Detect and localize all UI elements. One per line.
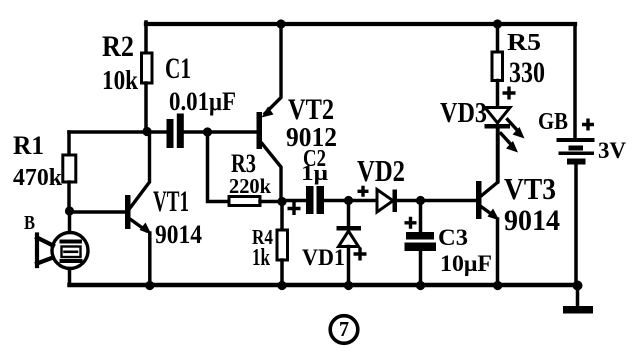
LED VD3: [485, 108, 510, 124]
transistor VT2 base bar: [257, 112, 263, 149]
resistor R4: [277, 230, 288, 260]
wire VD3 to VT3 collector: [496, 129, 500, 183]
svg-text:C3: C3: [438, 225, 468, 250]
svg-text:7: 7: [339, 317, 349, 341]
transistor VT1 base bar: [125, 195, 131, 229]
transistor VT2 collector: [262, 144, 281, 202]
junction VT1 emitter / rail: [145, 281, 154, 290]
plus of C3: [405, 217, 417, 229]
wire VT3 emitter to ground rail: [496, 219, 500, 285]
wire node D to R4: [280, 202, 284, 231]
wire R2 branch from rail: [144, 22, 148, 53]
node C junction: [203, 127, 212, 136]
plus of VD2: [358, 186, 369, 197]
wire R3 to node D: [260, 200, 282, 204]
svg-text:R2: R2: [102, 30, 134, 63]
transistor VT3 collector: [481, 129, 498, 197]
wire node A to C1: [147, 130, 167, 134]
wire R5 branch from rail: [496, 24, 500, 52]
wire R2 to node A: [144, 83, 148, 131]
wire node E to VD2: [349, 199, 378, 203]
svg-text:VD1: VD1: [302, 245, 345, 270]
battery GB: [557, 138, 595, 165]
svg-text:9014: 9014: [504, 204, 560, 237]
svg-text:1k: 1k: [252, 245, 270, 271]
wire VD1 to ground rail: [347, 247, 351, 286]
resistor R2: [142, 53, 153, 83]
node D junction: [277, 197, 286, 206]
plus of VD3: [503, 87, 516, 100]
transistor VT1 emitter: [130, 219, 146, 231]
svg-text:330: 330: [509, 56, 545, 89]
wire R5 to VD3: [496, 81, 500, 108]
wire node B to VT1 base: [69, 210, 126, 214]
figure number 7 circle: [330, 316, 358, 344]
wire node C down to R3: [208, 132, 230, 202]
node A junction: [142, 127, 151, 136]
capacitor C2: [306, 186, 324, 214]
svg-text:9014: 9014: [155, 220, 202, 249]
wire C2 to node E: [324, 199, 348, 203]
wire C1 to node C: [184, 130, 257, 134]
junction C3 / rail: [416, 281, 425, 290]
node E junction: [344, 196, 353, 205]
plus of GB: [582, 119, 594, 131]
svg-text:R5: R5: [507, 30, 541, 56]
svg-text:VD3: VD3: [440, 97, 487, 129]
svg-text:10μF: 10μF: [440, 251, 492, 276]
capacitor C3: [405, 232, 437, 251]
wire node A to R1: [69, 130, 147, 134]
wire node F down to C3: [419, 201, 423, 233]
node F junction: [416, 196, 425, 205]
wire microphone to ground rail: [68, 269, 72, 286]
wire node F to VT3 base: [421, 199, 477, 203]
wire top supply rail: [146, 22, 575, 26]
transistor VT3 base bar: [476, 181, 482, 219]
wire R4 to ground rail: [280, 260, 284, 285]
transistor VT2 emitter: [265, 23, 281, 114]
svg-text:R1: R1: [13, 131, 44, 160]
junction R4 / rail: [277, 281, 286, 290]
junction VD1 / rail: [344, 281, 353, 290]
transistor VT3 emitter: [481, 207, 494, 217]
svg-text:3V: 3V: [598, 138, 626, 163]
wire C3 to ground rail: [419, 251, 423, 285]
wire right branch down to battery plus: [573, 24, 577, 139]
junction VT3 emitter / rail: [493, 281, 502, 290]
wire node B to microphone: [68, 211, 72, 233]
ground: [576, 285, 580, 306]
wire R1 to node B: [67, 182, 71, 211]
diode VD1: [337, 226, 362, 231]
svg-text:1μ: 1μ: [301, 160, 329, 185]
svg-text:10k: 10k: [102, 65, 138, 95]
capacitor C1: [167, 114, 184, 149]
wire VD2 to node F: [397, 199, 420, 203]
wire R1 top drop: [67, 132, 71, 155]
microphone B body: [52, 233, 88, 269]
node B junction: [65, 206, 74, 215]
resistor R1: [63, 155, 76, 182]
LED VD3 light arrows: [508, 120, 518, 131]
wire node D to C2: [282, 199, 306, 203]
wire bottom ground rail: [70, 283, 579, 288]
plus of C2: [288, 202, 301, 215]
plus of VD1: [354, 248, 367, 261]
junction battery / rail: [573, 281, 583, 291]
resistor R5: [492, 52, 503, 81]
svg-text:VT1: VT1: [153, 185, 189, 218]
junction VT2 emitter / rail: [276, 19, 285, 28]
svg-text:470k: 470k: [13, 165, 63, 191]
svg-text:220k: 220k: [229, 174, 271, 198]
transistor VT1 collector: [130, 131, 150, 208]
svg-text:0.01μF: 0.01μF: [169, 87, 236, 116]
junction R5 / rail: [493, 19, 502, 28]
svg-text:VD2: VD2: [357, 153, 405, 188]
svg-text:VT3: VT3: [504, 171, 556, 206]
microphone horn: [37, 235, 53, 267]
svg-text:GB: GB: [538, 109, 568, 135]
wire battery minus down to ground node: [574, 164, 578, 285]
svg-text:C1: C1: [165, 52, 191, 85]
diode VD2: [377, 190, 393, 213]
wire node E down to VD1: [347, 201, 351, 227]
wire VT1 emitter to ground rail: [148, 233, 152, 285]
svg-text:B: B: [24, 212, 35, 234]
resistor R3: [229, 197, 260, 206]
